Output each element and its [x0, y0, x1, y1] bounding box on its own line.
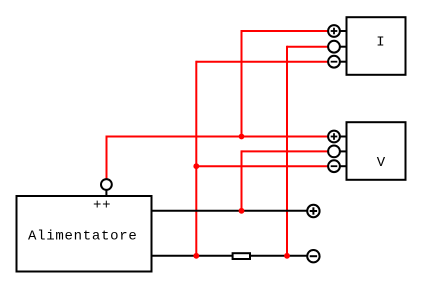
svg-text:I: I	[376, 35, 384, 51]
node junction: ammeter plus to voltmeter plus	[239, 134, 245, 140]
wire black: stub voltmeter mid	[339, 150, 347, 152]
svg-text:V: V	[377, 155, 386, 171]
wire red: vertical down to supply top terminal	[106, 136, 108, 180]
wire red: voltmeter plus horizontal from supply top terminal	[107, 136, 329, 138]
terminal: ammeter mid	[328, 41, 340, 53]
wire red: vertical from ammeter mid down to minus output	[286, 46, 288, 256]
wire red: vertical from ammeter minus down to minus output	[195, 61, 197, 256]
terminal: plus output	[307, 205, 319, 217]
wire red: voltmeter minus horizontal	[196, 165, 328, 167]
wire black: plus output wire	[152, 210, 308, 212]
wire black: stub voltmeter minus	[339, 165, 347, 167]
wire red: ammeter mid horizontal	[287, 46, 329, 48]
wire black: stub from supply top terminal to box	[105, 189, 107, 196]
node junction: ammeter minus net on minus output wire	[193, 253, 199, 259]
wire black: stub ammeter mid	[339, 46, 347, 48]
wire red: ammeter minus horizontal	[196, 61, 328, 63]
wire black: stub ammeter minus	[339, 61, 347, 63]
terminal: ammeter minus	[328, 56, 340, 68]
wire black: stub ammeter plus	[339, 30, 347, 32]
terminal: minus output	[307, 250, 319, 262]
wire black: stub voltmeter plus	[339, 136, 347, 138]
terminal: supply top	[101, 179, 112, 190]
node junction: ammeter minus to voltmeter minus	[193, 163, 199, 169]
wire red: vertical from voltmeter mid down to plus output wire	[241, 150, 243, 210]
power supply box Alimentatore	[17, 196, 152, 272]
node junction: ammeter mid net on minus output wire	[284, 253, 290, 259]
ammeter box U1	[347, 17, 406, 75]
wire red: voltmeter mid horizontal	[242, 150, 329, 152]
node junction: voltmeter mid on plus output wire	[239, 208, 245, 214]
terminal: voltmeter plus	[328, 131, 340, 143]
svg-text:++: ++	[93, 198, 111, 214]
resistor R1 on minus output wire	[233, 253, 250, 259]
voltmeter box U2	[347, 122, 406, 180]
terminal: voltmeter minus	[328, 160, 340, 172]
terminal: ammeter plus	[328, 25, 340, 37]
wire red: vertical from ammeter plus down to voltmeter plus net	[241, 30, 243, 137]
terminal: voltmeter mid	[328, 146, 340, 158]
wire black: minus output wire	[152, 255, 308, 257]
svg-text:Alimentatore: Alimentatore	[28, 229, 137, 245]
wire red: ammeter plus horizontal	[242, 30, 329, 32]
